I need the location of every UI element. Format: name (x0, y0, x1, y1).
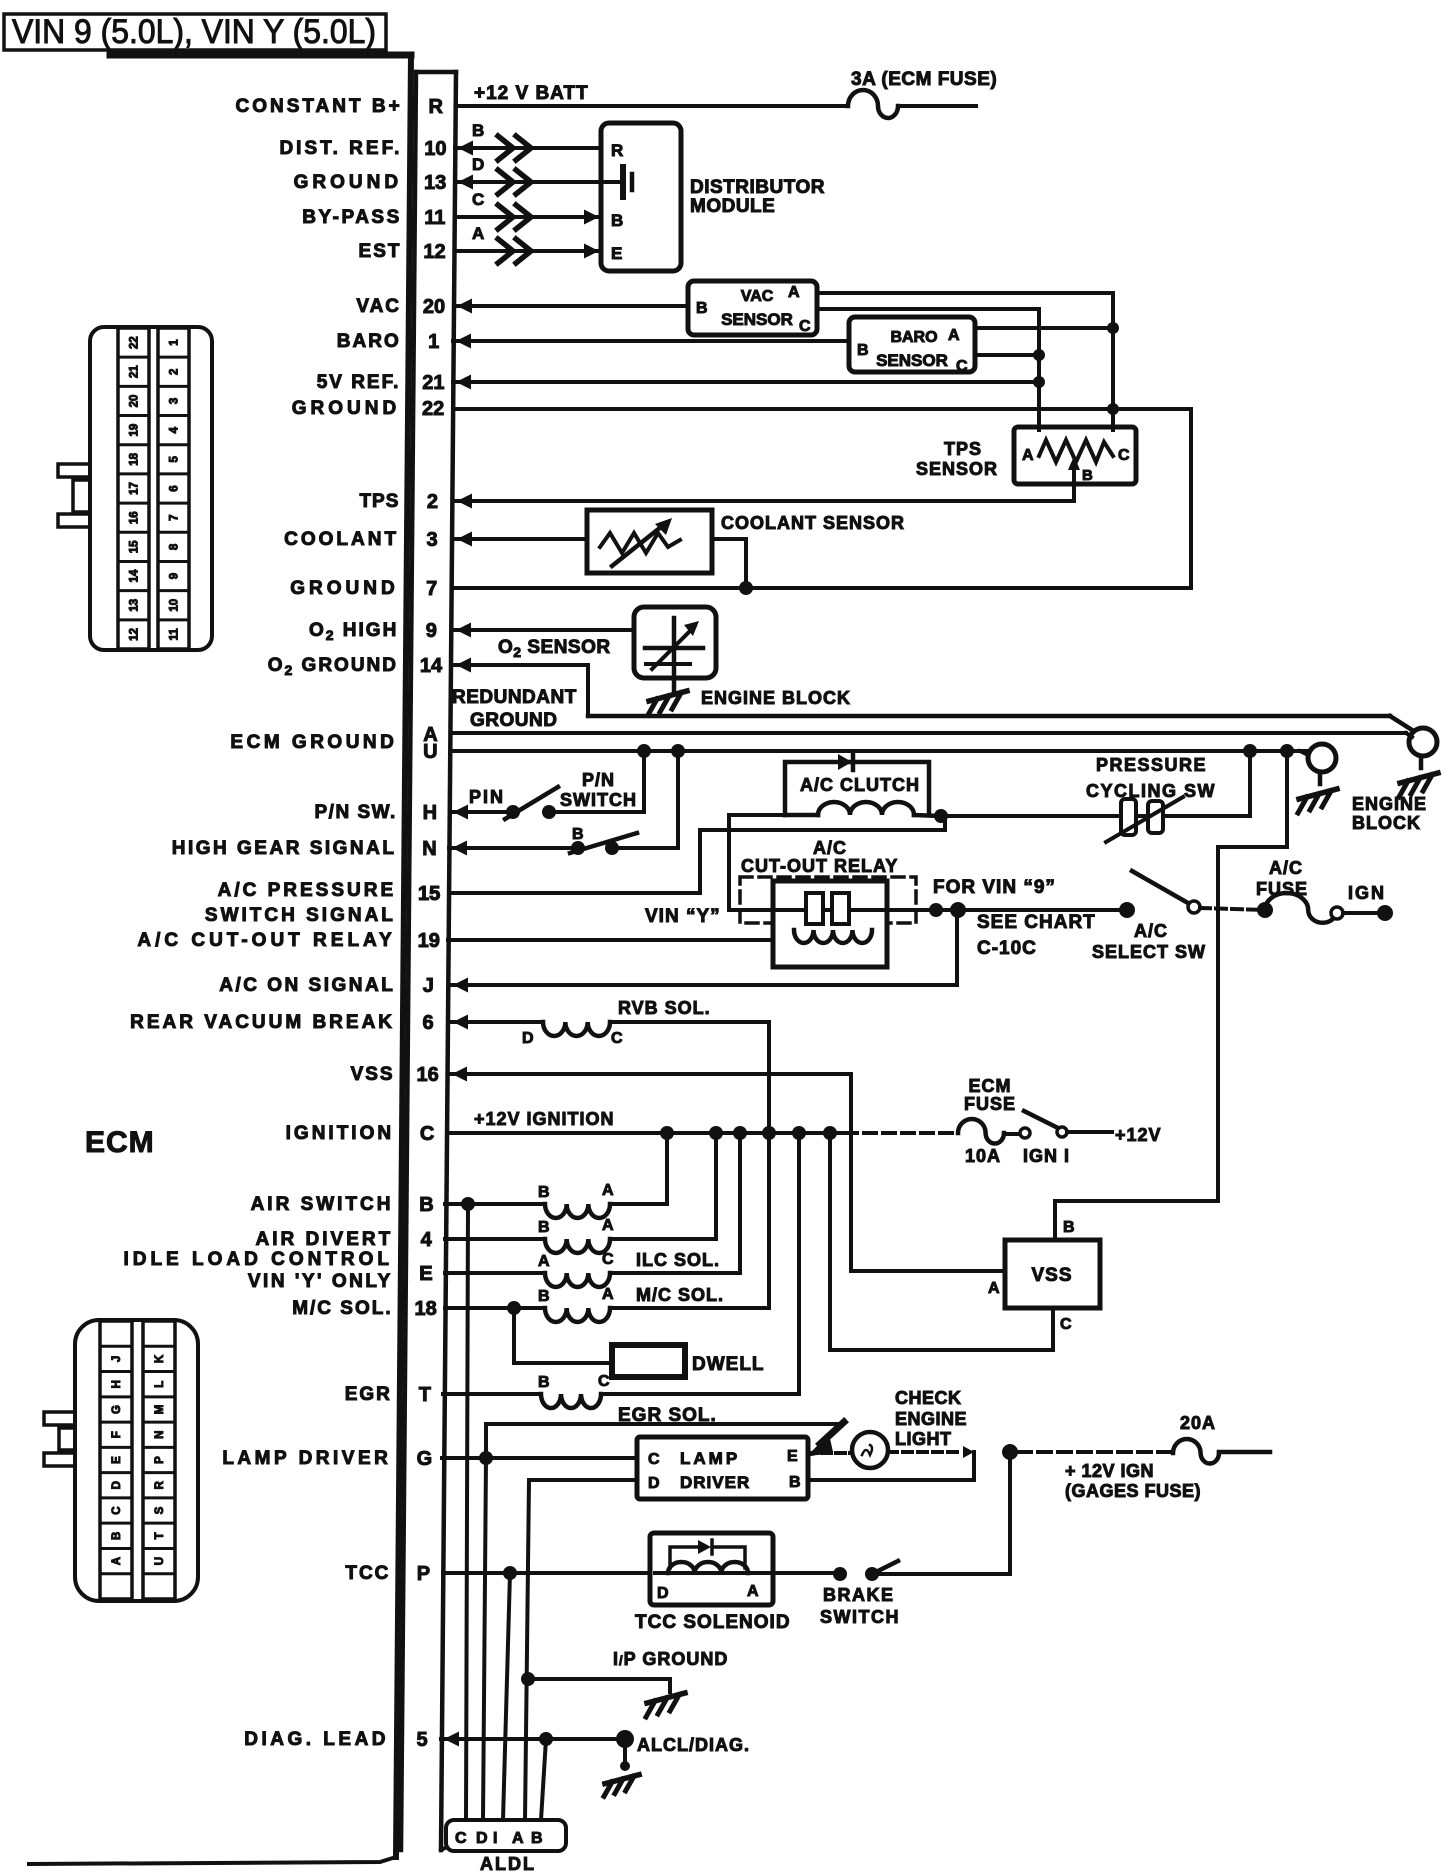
svg-text:I/P GROUND: I/P GROUND (613, 1649, 728, 1669)
svg-text:LIGHT: LIGHT (895, 1429, 952, 1449)
svg-text:21: 21 (129, 365, 141, 378)
svg-text:5V REF.: 5V REF. (317, 372, 401, 393)
svg-text:T: T (154, 1532, 166, 1539)
svg-text:VAC: VAC (356, 296, 401, 317)
svg-text:B: B (572, 826, 584, 843)
svg-text:A/C: A/C (1134, 921, 1168, 941)
svg-text:7: 7 (169, 514, 181, 520)
svg-text:BRAKE: BRAKE (823, 1585, 895, 1605)
svg-text:VIN 'Y' ONLY: VIN 'Y' ONLY (248, 1271, 393, 1292)
svg-text:C: C (611, 1030, 623, 1047)
svg-text:GROUND: GROUND (470, 710, 557, 731)
svg-text:COOLANT: COOLANT (284, 529, 399, 550)
svg-text:13: 13 (129, 599, 141, 612)
svg-text:CUT-OUT RELAY: CUT-OUT RELAY (741, 856, 898, 876)
svg-text:R: R (428, 96, 443, 118)
svg-text:+12 V BATT: +12 V BATT (474, 83, 589, 104)
svg-text:HIGH GEAR SIGNAL: HIGH GEAR SIGNAL (172, 838, 397, 859)
svg-text:REDUNDANT: REDUNDANT (452, 687, 577, 708)
svg-text:D: D (476, 1830, 488, 1847)
svg-text:ENGINE: ENGINE (895, 1409, 967, 1429)
svg-text:SWITCH: SWITCH (820, 1607, 900, 1627)
svg-text:D: D (522, 1030, 534, 1047)
svg-text:A/C CUT-OUT RELAY: A/C CUT-OUT RELAY (137, 930, 395, 951)
svg-text:19: 19 (129, 424, 141, 437)
svg-text:BARO: BARO (337, 331, 401, 352)
svg-text:M: M (154, 1405, 166, 1415)
svg-text:ALCL/DIAG.: ALCL/DIAG. (637, 1735, 750, 1755)
svg-text:12: 12 (423, 241, 445, 263)
svg-text:U: U (154, 1557, 166, 1565)
svg-text:SWITCH SIGNAL: SWITCH SIGNAL (205, 905, 396, 926)
svg-text:P: P (417, 1563, 430, 1585)
svg-text:VIN “Y”: VIN “Y” (645, 906, 721, 927)
svg-text:FUSE: FUSE (1256, 879, 1308, 899)
svg-text:A: A (602, 1286, 614, 1303)
svg-text:A: A (788, 284, 800, 301)
svg-text:C: C (420, 1123, 434, 1145)
svg-text:AIR SWITCH: AIR SWITCH (251, 1194, 394, 1215)
svg-text:U: U (423, 741, 437, 763)
svg-text:N: N (422, 838, 436, 860)
svg-text:DIAG. LEAD: DIAG. LEAD (244, 1729, 389, 1750)
svg-text:VAC: VAC (741, 288, 774, 305)
svg-text:18: 18 (415, 1298, 437, 1320)
svg-text:14: 14 (420, 655, 443, 677)
svg-text:(GAGES FUSE): (GAGES FUSE) (1065, 1481, 1201, 1501)
svg-text:CYCLING SW: CYCLING SW (1086, 781, 1216, 801)
svg-text:21: 21 (422, 372, 444, 394)
svg-text:B: B (857, 342, 869, 359)
svg-text:P: P (154, 1456, 166, 1464)
svg-text:3A (ECM FUSE): 3A (ECM FUSE) (851, 69, 997, 90)
svg-text:PIN: PIN (469, 787, 505, 807)
svg-text:4: 4 (169, 426, 181, 433)
svg-text:IGN I: IGN I (1023, 1146, 1070, 1166)
svg-text:TPS: TPS (359, 491, 399, 512)
svg-text:C: C (602, 1251, 614, 1268)
svg-text:20: 20 (129, 395, 141, 408)
svg-text:P/N SW.: P/N SW. (315, 802, 397, 823)
svg-text:SENSOR: SENSOR (876, 351, 948, 370)
svg-text:A: A (1022, 447, 1034, 464)
svg-text:C: C (111, 1506, 123, 1514)
svg-text:CONSTANT B+: CONSTANT B+ (235, 96, 402, 117)
svg-text:M/C SOL.: M/C SOL. (292, 1298, 392, 1319)
svg-text:C: C (455, 1830, 467, 1847)
svg-text:REAR VACUUM BREAK: REAR VACUUM BREAK (130, 1012, 395, 1033)
svg-text:C: C (472, 190, 484, 209)
svg-text:R: R (611, 141, 623, 160)
svg-text:VSS: VSS (1031, 1265, 1072, 1286)
svg-text:2: 2 (169, 369, 181, 375)
svg-text:2: 2 (427, 491, 438, 513)
svg-text:M/C SOL.: M/C SOL. (636, 1285, 724, 1305)
svg-text:10A: 10A (965, 1146, 1001, 1166)
svg-text:11: 11 (424, 207, 445, 229)
svg-text:H: H (111, 1380, 123, 1388)
svg-text:B: B (538, 1374, 550, 1391)
svg-text:18: 18 (129, 452, 141, 465)
svg-text:E: E (787, 1448, 798, 1465)
svg-text:J: J (111, 1356, 123, 1362)
svg-text:A/C: A/C (1269, 858, 1303, 878)
svg-text:9: 9 (426, 620, 437, 642)
svg-text:C: C (1118, 447, 1130, 464)
svg-text:COOLANT SENSOR: COOLANT SENSOR (721, 513, 905, 533)
svg-text:16: 16 (416, 1064, 438, 1086)
svg-text:1: 1 (169, 339, 181, 346)
svg-text:AIR DIVERT: AIR DIVERT (256, 1229, 394, 1250)
svg-text:DRIVER: DRIVER (680, 1473, 750, 1492)
svg-text:B: B (538, 1219, 550, 1236)
svg-text:10: 10 (424, 138, 446, 160)
svg-text:3: 3 (427, 529, 438, 551)
svg-text:6: 6 (422, 1012, 433, 1034)
svg-text:A: A (747, 1583, 759, 1600)
svg-text:A/C PRESSURE: A/C PRESSURE (218, 880, 397, 901)
svg-text:DWELL: DWELL (692, 1354, 765, 1375)
svg-text:SELECT SW: SELECT SW (1092, 942, 1206, 962)
svg-text:ECM GROUND: ECM GROUND (230, 732, 397, 753)
svg-text:R: R (154, 1480, 166, 1489)
svg-text:A: A (472, 224, 484, 243)
svg-text:SEE CHART: SEE CHART (977, 912, 1096, 933)
svg-text:A: A (602, 1217, 614, 1234)
svg-text:GROUND: GROUND (294, 172, 402, 193)
svg-text:C: C (799, 318, 811, 335)
svg-text:CHECK: CHECK (895, 1388, 962, 1408)
svg-text:B: B (696, 300, 708, 317)
svg-text:IGN: IGN (1348, 883, 1386, 903)
svg-text:14: 14 (129, 569, 141, 582)
svg-text:IGNITION: IGNITION (286, 1123, 394, 1144)
svg-text:D: D (111, 1481, 123, 1489)
svg-text:A: A (988, 1280, 1000, 1297)
svg-text:H: H (423, 802, 437, 824)
svg-text:5: 5 (416, 1729, 427, 1751)
svg-text:I: I (493, 1830, 497, 1847)
svg-text:C-10C: C-10C (977, 938, 1037, 959)
svg-text:P/N: P/N (582, 770, 615, 790)
svg-text:O2 HIGH: O2 HIGH (309, 620, 398, 643)
svg-text:J: J (423, 975, 434, 997)
svg-text:G: G (111, 1405, 123, 1414)
svg-text:GROUND: GROUND (290, 578, 398, 599)
svg-text:8: 8 (169, 543, 181, 550)
svg-text:VSS: VSS (351, 1064, 395, 1085)
svg-text:A: A (512, 1830, 524, 1847)
svg-text:SENSOR: SENSOR (916, 459, 998, 479)
svg-text:ILC SOL.: ILC SOL. (636, 1250, 720, 1270)
svg-text:FUSE: FUSE (964, 1094, 1016, 1114)
svg-text:VIN 9 (5.0L), VIN Y (5.0L): VIN 9 (5.0L), VIN Y (5.0L) (12, 13, 376, 51)
svg-text:11: 11 (169, 628, 181, 641)
svg-text:A/C CLUTCH: A/C CLUTCH (800, 775, 920, 795)
svg-text:A: A (948, 327, 960, 344)
svg-text:15: 15 (129, 540, 141, 553)
svg-text:TCC: TCC (345, 1563, 390, 1584)
svg-text:RVB SOL.: RVB SOL. (618, 998, 711, 1018)
svg-text:ENGINE BLOCK: ENGINE BLOCK (701, 688, 851, 708)
svg-text:TPS: TPS (944, 439, 982, 459)
svg-text:16: 16 (129, 511, 141, 524)
svg-text:+12V IGNITION: +12V IGNITION (474, 1109, 615, 1129)
svg-text:22: 22 (129, 336, 141, 349)
svg-text:EST: EST (359, 241, 402, 262)
svg-text:K: K (154, 1354, 166, 1363)
svg-text:GROUND: GROUND (292, 398, 400, 419)
svg-text:1: 1 (428, 331, 439, 353)
svg-text:20A: 20A (1180, 1413, 1216, 1433)
svg-text:D: D (657, 1585, 669, 1602)
svg-text:S: S (154, 1506, 166, 1514)
svg-text:13: 13 (424, 172, 446, 194)
svg-text:+ 12V IGN: + 12V IGN (1065, 1461, 1154, 1481)
svg-text:A: A (111, 1557, 123, 1565)
svg-text:FOR VIN “9”: FOR VIN “9” (933, 877, 1056, 898)
svg-text:17: 17 (129, 482, 141, 495)
svg-text:L: L (154, 1381, 166, 1388)
svg-text:B: B (1082, 467, 1093, 484)
svg-text:DIST. REF.: DIST. REF. (279, 138, 402, 159)
svg-text:B: B (611, 211, 623, 230)
svg-text:10: 10 (169, 599, 181, 612)
svg-text:ECM: ECM (969, 1076, 1012, 1096)
svg-text:SWITCH: SWITCH (560, 790, 637, 810)
svg-text:15: 15 (418, 883, 440, 905)
svg-text:D: D (648, 1475, 660, 1492)
svg-text:C: C (1060, 1316, 1072, 1333)
svg-text:BARO: BARO (890, 329, 937, 346)
svg-text:C: C (598, 1373, 610, 1390)
svg-text:MODULE: MODULE (690, 196, 775, 217)
svg-text:B: B (538, 1184, 550, 1201)
svg-text:B: B (419, 1194, 433, 1216)
svg-text:E: E (611, 244, 622, 263)
svg-text:A/C ON SIGNAL: A/C ON SIGNAL (219, 975, 395, 996)
svg-text:12: 12 (129, 628, 141, 641)
svg-text:DISTRIBUTOR: DISTRIBUTOR (690, 177, 825, 198)
svg-text:A: A (538, 1253, 550, 1270)
svg-text:ECM: ECM (85, 1126, 155, 1159)
svg-text:E: E (111, 1456, 123, 1464)
svg-text:4: 4 (421, 1229, 433, 1251)
svg-text:F: F (111, 1431, 123, 1438)
svg-text:7: 7 (426, 578, 437, 600)
svg-text:A/C: A/C (813, 838, 847, 858)
svg-text:20: 20 (423, 296, 445, 318)
svg-text:BLOCK: BLOCK (1352, 813, 1421, 833)
svg-text:B: B (472, 121, 484, 140)
svg-text:IDLE LOAD CONTROL: IDLE LOAD CONTROL (123, 1249, 393, 1270)
svg-text:+12V: +12V (1115, 1125, 1162, 1145)
svg-text:22: 22 (422, 398, 444, 420)
svg-text:LAMP: LAMP (680, 1449, 740, 1468)
svg-text:A: A (602, 1182, 614, 1199)
svg-text:B: B (111, 1532, 123, 1540)
svg-text:3: 3 (169, 398, 181, 404)
svg-text:B: B (789, 1474, 801, 1491)
svg-text:19: 19 (418, 930, 440, 952)
svg-text:ENGINE: ENGINE (1352, 794, 1427, 814)
svg-text:B: B (538, 1288, 550, 1305)
svg-text:B: B (1063, 1219, 1075, 1236)
svg-text:N: N (154, 1431, 166, 1439)
svg-text:TCC SOLENOID: TCC SOLENOID (635, 1612, 791, 1633)
svg-text:LAMP DRIVER: LAMP DRIVER (222, 1448, 391, 1469)
svg-text:E: E (419, 1263, 432, 1285)
svg-text:SENSOR: SENSOR (721, 310, 793, 329)
svg-text:G: G (417, 1448, 433, 1470)
svg-text:BY-PASS: BY-PASS (302, 207, 402, 228)
svg-text:EGR: EGR (345, 1384, 392, 1405)
svg-text:9: 9 (169, 573, 181, 579)
svg-text:6: 6 (169, 485, 181, 491)
svg-text:C: C (956, 358, 968, 375)
svg-text:PRESSURE: PRESSURE (1096, 755, 1207, 775)
svg-text:C: C (648, 1451, 660, 1468)
svg-text:D: D (472, 155, 484, 174)
svg-text:5: 5 (169, 456, 181, 463)
svg-text:T: T (419, 1384, 431, 1406)
svg-text:B: B (531, 1830, 543, 1847)
svg-text:ALDL: ALDL (480, 1854, 536, 1874)
